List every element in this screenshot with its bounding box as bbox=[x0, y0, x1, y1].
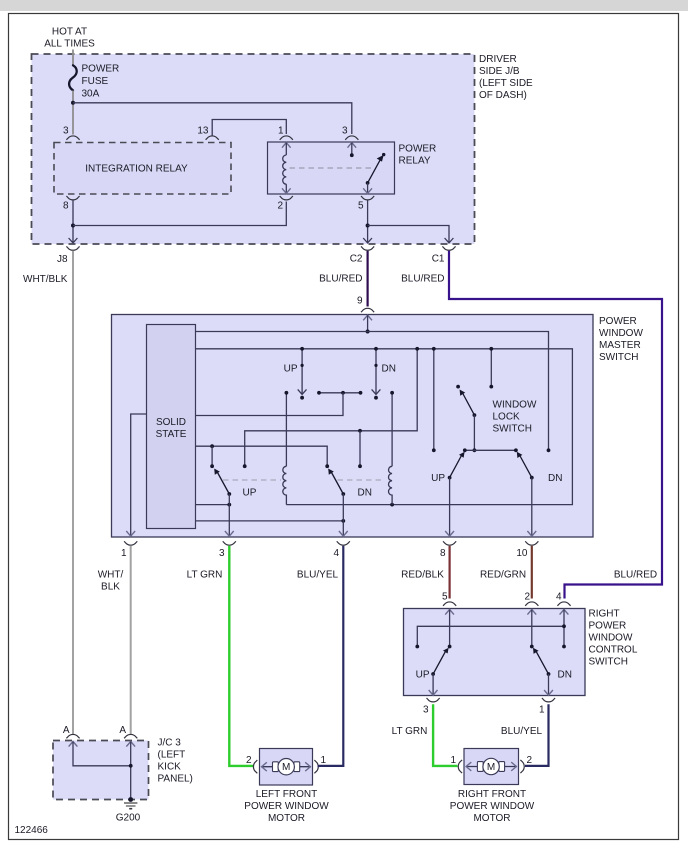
svg-text:UP: UP bbox=[284, 364, 298, 375]
pin 5 connector bbox=[443, 602, 456, 606]
pin 2 power relay bbox=[280, 196, 293, 200]
svg-text:ALL TIMES: ALL TIMES bbox=[44, 39, 95, 50]
power relay mechanical link bbox=[290, 167, 373, 169]
node UP output pivot bbox=[448, 476, 452, 480]
node power relay arm contact bbox=[382, 153, 385, 156]
svg-text:G200: G200 bbox=[116, 813, 141, 824]
junction pin 9 on bus 1 bbox=[366, 330, 370, 334]
pin 8 connector bbox=[443, 541, 456, 545]
node lock switch pivot bbox=[473, 413, 477, 417]
svg-text:J8: J8 bbox=[57, 254, 68, 265]
wire RED/GRN pin 10 to control switch pin 2 bbox=[531, 546, 533, 599]
contact control UP left bbox=[415, 645, 419, 649]
contact control UP right bbox=[448, 645, 452, 649]
svg-text:LT GRN: LT GRN bbox=[187, 570, 223, 581]
label WINDOW LOCK SWITCH bbox=[493, 400, 537, 435]
node lock bar left end bbox=[463, 448, 467, 452]
svg-text:A: A bbox=[119, 725, 126, 736]
node coil 1 top contact bbox=[285, 391, 289, 395]
wire bus 2 to relay switch contacts bbox=[245, 349, 418, 466]
wire LT GRN control pin 3 to right motor bbox=[433, 704, 457, 766]
pin 1 connector bbox=[124, 541, 137, 545]
svg-text:C2: C2 bbox=[350, 254, 363, 265]
svg-text:30A: 30A bbox=[82, 89, 100, 100]
motor pin 1 connector bbox=[314, 760, 318, 773]
wire WHT/BLK J8 down to J/C3 bbox=[72, 251, 74, 734]
control UP switch bbox=[433, 651, 446, 674]
svg-text:1: 1 bbox=[539, 705, 545, 716]
junction pin 4 wire bbox=[341, 519, 345, 523]
power relay coil bbox=[283, 155, 287, 184]
contact DN relay right bbox=[358, 464, 362, 468]
power relay switch arm bbox=[368, 160, 381, 183]
wire relay bar to solid state bbox=[196, 393, 344, 416]
ground G200 symbol bbox=[124, 803, 137, 809]
node UP feed mid dot bbox=[301, 364, 304, 367]
window lock switch stem bbox=[473, 415, 475, 450]
pin 4 connector bbox=[337, 541, 350, 545]
svg-text:2: 2 bbox=[246, 755, 252, 766]
arrowhead DN relay arm bbox=[328, 469, 334, 475]
svg-text:LEFT FRONT: LEFT FRONT bbox=[256, 789, 317, 800]
svg-text:10: 10 bbox=[516, 548, 528, 559]
svg-text:RED/BLK: RED/BLK bbox=[401, 570, 444, 581]
svg-text:DRIVER: DRIVER bbox=[479, 54, 517, 65]
node bar left end bbox=[317, 391, 321, 395]
svg-text:1: 1 bbox=[278, 126, 284, 137]
control DN switch bbox=[536, 651, 549, 674]
DN relay switch arm bbox=[332, 473, 344, 495]
junction bar center bbox=[341, 391, 345, 395]
label DRIVER SIDE J/B bbox=[479, 54, 533, 101]
pin 3 integration relay bbox=[66, 136, 79, 140]
contact control DN right bbox=[562, 645, 566, 649]
svg-text:2: 2 bbox=[527, 755, 533, 766]
wire RED/BLK pin 8 to control switch pin 5 bbox=[449, 546, 451, 599]
solid state box bbox=[147, 325, 196, 529]
label J8 bbox=[66, 246, 79, 250]
svg-text:SIDE J/B: SIDE J/B bbox=[479, 66, 520, 77]
wire WHT/BLK pin 1 to J/C3 bbox=[130, 546, 132, 734]
arrowhead DN output wiper bbox=[517, 452, 523, 458]
connector A left bbox=[66, 734, 79, 738]
junction coil 2 bottom bbox=[390, 503, 394, 507]
wire from HOT AT ALL TIMES to fuse bbox=[72, 50, 74, 67]
svg-text:13: 13 bbox=[197, 126, 209, 137]
relay coil 1 (UP) bbox=[283, 466, 287, 504]
junction bus 1 at lock right contact bbox=[547, 448, 551, 452]
pin 1 power relay bbox=[280, 136, 293, 140]
node control UP pivot bbox=[431, 672, 435, 676]
lock area left contact from bus 2 bbox=[433, 349, 435, 450]
DN output wiper (pin 10) bbox=[520, 456, 532, 478]
J/C3 left entry arrow bbox=[69, 742, 78, 747]
junction pin 3 wire bbox=[227, 503, 231, 507]
svg-text:MOTOR: MOTOR bbox=[473, 813, 510, 824]
label SOLID STATE bbox=[156, 417, 187, 440]
wire solid state to DN pivot / pin 4 bbox=[196, 520, 344, 522]
svg-text:(LEFT SIDE: (LEFT SIDE bbox=[479, 78, 533, 89]
label LEFT FRONT POWER WINDOW MOTOR bbox=[244, 789, 329, 824]
motor M2 circle bbox=[483, 758, 499, 774]
junction DN feed on bus 2 bbox=[374, 347, 378, 351]
stub to UP left contact bbox=[211, 446, 213, 466]
svg-text:POWER: POWER bbox=[589, 621, 627, 632]
wire BLU/RED C2 to pin 9 bbox=[367, 251, 369, 307]
arrow UP wiper bbox=[298, 389, 307, 394]
node DN feed mid dot bbox=[374, 364, 377, 367]
svg-text:5: 5 bbox=[442, 592, 448, 603]
J/C3 internal wire right to ground bbox=[130, 742, 132, 800]
svg-text:122466: 122466 bbox=[15, 825, 49, 836]
svg-text:3: 3 bbox=[219, 548, 225, 559]
motor armature arrows bbox=[466, 766, 518, 768]
pin 5 power relay bbox=[361, 196, 374, 200]
wire pin 8 down to J8 bbox=[72, 201, 74, 243]
svg-text:RELAY: RELAY bbox=[399, 156, 431, 167]
wire solid state to pin 1 bbox=[131, 414, 147, 536]
svg-text:RIGHT FRONT: RIGHT FRONT bbox=[458, 789, 526, 800]
svg-text:DN: DN bbox=[548, 473, 562, 484]
svg-text:UP: UP bbox=[431, 473, 445, 484]
svg-text:1: 1 bbox=[121, 548, 127, 559]
svg-text:KICK: KICK bbox=[158, 762, 182, 773]
svg-text:WHT/: WHT/ bbox=[98, 570, 124, 581]
pin 13 integration relay bbox=[206, 136, 219, 140]
motor pin 2 connector bbox=[253, 760, 257, 773]
svg-text:SOLID: SOLID bbox=[156, 417, 186, 428]
pin 9 entry arrow bbox=[363, 315, 372, 320]
motor brushes bbox=[273, 762, 279, 772]
J/C3 right entry arrow bbox=[126, 742, 135, 747]
wire fuse to power relay pin 3 bbox=[73, 103, 352, 134]
label POWER RELAY bbox=[399, 144, 437, 167]
svg-text:PANEL): PANEL) bbox=[158, 774, 193, 785]
svg-text:WINDOW: WINDOW bbox=[493, 400, 537, 411]
DN relay mechanical link bbox=[338, 479, 386, 481]
svg-text:FUSE: FUSE bbox=[82, 76, 109, 87]
svg-text:SWITCH: SWITCH bbox=[493, 424, 532, 435]
wire coil 2 feed bbox=[391, 393, 393, 467]
junction A wires bbox=[129, 764, 133, 768]
svg-text:3: 3 bbox=[342, 126, 348, 137]
label POWER WINDOW MASTER SWITCH bbox=[599, 316, 643, 363]
svg-text:POWER: POWER bbox=[399, 144, 437, 155]
arrowhead control DN arm bbox=[533, 648, 539, 654]
svg-text:RIGHT: RIGHT bbox=[589, 609, 620, 620]
svg-text:BLU/YEL: BLU/YEL bbox=[501, 726, 543, 737]
label POWER FUSE 30A bbox=[82, 64, 120, 100]
wire BLU/YEL control pin 1 to right motor bbox=[525, 704, 549, 766]
relay coil 2 (DN) bbox=[389, 466, 393, 504]
junction left contact feed on bus 2 bbox=[432, 347, 436, 351]
UP wiper feed from bus 2 bbox=[301, 349, 303, 395]
pin 9 connector bbox=[361, 308, 374, 312]
svg-text:BLK: BLK bbox=[101, 582, 120, 593]
bus 2 wire (from solid state to coil common) bbox=[196, 349, 573, 505]
svg-text:STATE: STATE bbox=[156, 429, 187, 440]
stub to DN right contact bbox=[359, 431, 361, 466]
UP relay switch arm bbox=[218, 473, 230, 495]
svg-text:LT GRN: LT GRN bbox=[392, 726, 428, 737]
J/C 3 box bbox=[53, 741, 149, 800]
arrowhead lock switch arm bbox=[460, 390, 466, 396]
svg-text:BLU/RED: BLU/RED bbox=[401, 274, 444, 285]
node HOT AT ALL TIMES bbox=[44, 27, 95, 50]
node control DN pivot bbox=[547, 672, 551, 676]
wire coil 1 feed bbox=[285, 393, 287, 467]
svg-text:POWER WINDOW: POWER WINDOW bbox=[244, 801, 329, 812]
svg-text:1: 1 bbox=[450, 755, 456, 766]
pin 2 connector bbox=[525, 602, 538, 606]
wire BLU/YEL pin 4 to left motor bbox=[319, 546, 343, 766]
connector A right bbox=[124, 734, 137, 738]
arrow into J/B edge at C2 bbox=[363, 238, 372, 243]
node lock bar right end bbox=[514, 448, 518, 452]
svg-text:MASTER: MASTER bbox=[599, 340, 641, 351]
svg-text:BLU/RED: BLU/RED bbox=[319, 274, 362, 285]
svg-text:BLU/YEL: BLU/YEL bbox=[297, 570, 339, 581]
contact DN relay left bbox=[325, 464, 329, 468]
svg-text:4: 4 bbox=[333, 548, 339, 559]
pin 3 power relay bbox=[345, 136, 358, 140]
relay bar contact bbox=[319, 392, 361, 394]
svg-text:POWER: POWER bbox=[82, 64, 120, 75]
svg-text:OF DASH): OF DASH) bbox=[479, 90, 527, 101]
contact UP relay left bbox=[243, 464, 247, 468]
pin 4 entry arrow and contact bbox=[560, 610, 569, 615]
right front power window motor box bbox=[464, 749, 519, 785]
motor M1 circle bbox=[278, 759, 294, 775]
svg-text:BLU/RED: BLU/RED bbox=[614, 570, 657, 581]
motor armature arrows bbox=[261, 766, 311, 768]
junction lock feed on bus 2 bbox=[489, 347, 493, 351]
label RIGHT POWER WINDOW CONTROL SWITCH bbox=[589, 609, 638, 668]
junction lock stem on bar bbox=[473, 448, 477, 452]
integration relay box bbox=[54, 143, 231, 195]
svg-text:M: M bbox=[487, 762, 495, 773]
motor pin 1 connector bbox=[458, 760, 462, 773]
wire solid state to UP pivot / pin 3 bbox=[196, 504, 230, 506]
svg-text:C1: C1 bbox=[432, 254, 445, 265]
svg-text:8: 8 bbox=[63, 201, 69, 212]
wire solid state to UP/DN relay contacts bbox=[196, 446, 328, 466]
svg-text:SWITCH: SWITCH bbox=[599, 352, 638, 363]
junction pin 5 branch bbox=[366, 224, 370, 228]
contact UP relay right bbox=[210, 464, 214, 468]
svg-text:WINDOW: WINDOW bbox=[599, 328, 643, 339]
svg-text:5: 5 bbox=[358, 201, 364, 212]
UP output wiper (pin 8) bbox=[450, 456, 462, 478]
contact lock area left bbox=[432, 448, 436, 452]
node DN wiper tip bbox=[374, 396, 378, 400]
svg-text:POWER WINDOW: POWER WINDOW bbox=[450, 801, 535, 812]
left front power window motor box bbox=[260, 749, 313, 786]
junction contact feed on bus 2 bbox=[415, 347, 419, 351]
junction on contact wire bbox=[358, 429, 362, 433]
window lock switch feed from bus 2 bbox=[490, 349, 492, 387]
svg-text:WHT/BLK: WHT/BLK bbox=[23, 274, 68, 285]
power window master switch box bbox=[112, 315, 594, 538]
node coil 2 top contact bbox=[390, 391, 394, 395]
svg-text:UP: UP bbox=[416, 670, 430, 681]
pin 5 entry arrow and contact bbox=[445, 610, 454, 615]
connector C1 bbox=[442, 246, 455, 250]
junction on solid state contact wire bbox=[210, 444, 214, 448]
svg-text:9: 9 bbox=[357, 296, 363, 307]
svg-text:DN: DN bbox=[382, 364, 396, 375]
node bar right end bbox=[359, 391, 363, 395]
arrowhead control UP arm bbox=[443, 648, 449, 654]
wire LT GRN pin 3 to left motor bbox=[229, 546, 253, 766]
svg-text:1: 1 bbox=[321, 755, 327, 766]
svg-text:2: 2 bbox=[524, 592, 530, 603]
svg-text:M: M bbox=[282, 762, 290, 773]
label RIGHT FRONT POWER WINDOW MOTOR bbox=[450, 789, 535, 824]
wire pin 5 down to C2 bbox=[367, 201, 369, 243]
arrowhead UP relay arm bbox=[214, 469, 220, 475]
wire BLU/RED C1 to control switch pin 4 bbox=[449, 251, 662, 599]
power relay coil arrow down bbox=[285, 184, 287, 193]
arrow into J/B edge at J8 bbox=[69, 238, 78, 243]
pin 4 rail bbox=[417, 626, 564, 646]
junction at J/C3 bottom edge bbox=[128, 797, 133, 802]
junction fuse output bbox=[71, 101, 75, 105]
svg-text:RED/GRN: RED/GRN bbox=[480, 570, 526, 581]
J/C3 internal wire left bbox=[73, 742, 131, 766]
control pin 1 connector bbox=[542, 698, 555, 702]
motor pin 2 connector bbox=[520, 760, 524, 773]
right power window control switch box bbox=[404, 609, 586, 696]
pin 4 connector bbox=[557, 602, 570, 606]
control pin 3 connector bbox=[427, 698, 440, 702]
svg-text:A: A bbox=[63, 725, 70, 736]
node UP wiper tip bbox=[300, 396, 304, 400]
junction pin 8 branch bbox=[71, 224, 75, 228]
pin 2 entry arrow and contact bbox=[527, 610, 536, 615]
driver side J/B box bbox=[32, 54, 475, 244]
connector C2 bbox=[361, 246, 374, 250]
arrow DN wiper bbox=[372, 389, 381, 394]
lock area bar contact bbox=[465, 449, 516, 451]
svg-text:DN: DN bbox=[358, 488, 372, 499]
wire pin 5 branch to C1 bbox=[368, 226, 449, 243]
wire pin 13 to power relay pin 1 bbox=[212, 120, 286, 136]
svg-text:UP: UP bbox=[243, 488, 257, 499]
svg-text:8: 8 bbox=[440, 548, 446, 559]
svg-text:4: 4 bbox=[556, 592, 562, 603]
svg-text:CONTROL: CONTROL bbox=[589, 645, 638, 656]
junction UP feed on bus 2 bbox=[300, 347, 304, 351]
power relay pin 5 wire bbox=[367, 183, 369, 194]
svg-text:MOTOR: MOTOR bbox=[268, 813, 305, 824]
motor brushes bbox=[477, 762, 483, 772]
svg-text:SWITCH: SWITCH bbox=[589, 657, 628, 668]
svg-text:3: 3 bbox=[423, 705, 429, 716]
svg-text:DN: DN bbox=[558, 670, 572, 681]
svg-text:POWER: POWER bbox=[599, 316, 637, 327]
wire BLU/YEL left motor pin1 up bbox=[318, 765, 320, 767]
window lock switch dead contact bbox=[456, 385, 460, 389]
label J/C 3 (LEFT KICK PANEL) bbox=[158, 738, 193, 785]
contact lock right bbox=[489, 385, 493, 389]
node DN output pivot bbox=[530, 476, 534, 480]
DN wiper feed from bus 2 bbox=[375, 349, 377, 395]
contact control DN left bbox=[530, 645, 534, 649]
node power relay arm pivot bbox=[366, 181, 370, 185]
svg-text:HOT AT: HOT AT bbox=[52, 27, 87, 38]
arrow into J/B edge at C1 bbox=[445, 238, 454, 243]
svg-text:3: 3 bbox=[63, 126, 69, 137]
svg-text:INTEGRATION RELAY: INTEGRATION RELAY bbox=[85, 164, 188, 175]
pin 10 connector bbox=[525, 541, 538, 545]
power relay pin 3 entry arrow bbox=[348, 143, 357, 148]
window lock switch arm bbox=[463, 394, 475, 416]
UP relay mechanical link bbox=[223, 479, 281, 481]
top grey bar bbox=[0, 0, 688, 11]
power relay box bbox=[268, 142, 395, 194]
power relay coil arrow up bbox=[282, 143, 291, 148]
bus 1 wire (from solid state to window lock) bbox=[196, 332, 549, 451]
junction rail at pin 4 bbox=[562, 624, 566, 628]
wire pin 8 branch to power relay pin 2 bbox=[73, 202, 286, 226]
svg-text:2: 2 bbox=[277, 201, 283, 212]
pin 8 integration relay bbox=[66, 196, 79, 200]
svg-text:LOCK: LOCK bbox=[493, 412, 521, 423]
pin 3 connector bbox=[223, 541, 236, 545]
node DN relay pivot bbox=[341, 492, 345, 496]
svg-text:WINDOW: WINDOW bbox=[589, 633, 633, 644]
node UP relay pivot bbox=[227, 492, 231, 496]
power fuse 30A bbox=[69, 65, 77, 90]
svg-text:J/C 3: J/C 3 bbox=[158, 738, 182, 749]
wire fuse output bbox=[72, 91, 74, 135]
arrowhead UP output wiper bbox=[459, 452, 465, 458]
svg-text:(LEFT: (LEFT bbox=[158, 750, 186, 761]
